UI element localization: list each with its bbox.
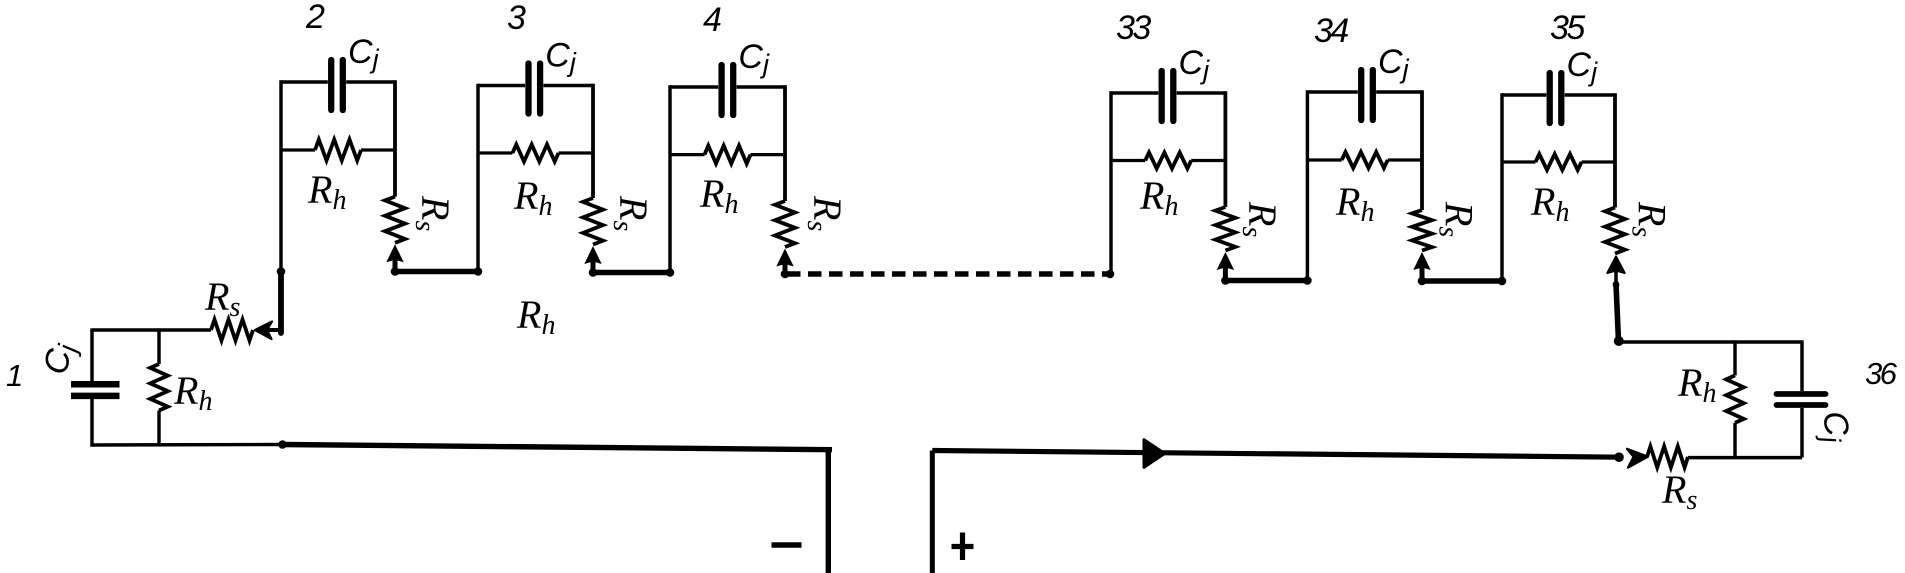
resistor Rs (cell 33, series)	[1215, 207, 1235, 251]
capacitor Cj (cell 4) plates	[718, 65, 724, 115]
resistor Rs (cell 34, series)	[1412, 210, 1432, 251]
wire thick vertical from cell 35 Rs down to cell 36	[1616, 284, 1619, 341]
junction dot at Rs bottom (cell 33)	[1221, 276, 1230, 285]
wire right vertical of cell 36	[1800, 340, 1803, 391]
capacitor Cj (cell 36) plates	[1777, 391, 1826, 397]
junction dot start of negative rail	[278, 440, 287, 449]
wire thick vertical from Rs up to node between cell1 and cell2	[278, 272, 284, 334]
junction dot at cell 36 top-left corner	[1614, 336, 1624, 346]
junction dot at Rs bottom (cell 4)	[781, 270, 790, 279]
svg-text:4: 4	[703, 1, 722, 39]
resistor Rh (cell 34, shunt)	[1307, 158, 1341, 161]
resistor Rs (cell 2, series)	[385, 197, 405, 243]
resistor Rh (cell 3, shunt)	[478, 151, 513, 154]
svg-text:36: 36	[1865, 356, 1898, 391]
arrowhead pointing up at bottom of Rs (cell 33)	[1217, 252, 1234, 270]
wire top of cell 1	[92, 328, 211, 331]
arrowhead pointing up at bottom of Rs (cell 34)	[1413, 252, 1430, 270]
battery negative terminal label -	[772, 542, 802, 548]
resistor Rs (cell 35, series)	[1605, 208, 1625, 254]
capacitor Cj (cell 1) plates	[71, 381, 120, 388]
junction dot at next cell input	[1303, 276, 1312, 285]
arrowhead pointing right into Rs (cell 36)	[1627, 449, 1648, 468]
wire left vertical of cell 35	[1500, 93, 1503, 281]
capacitor Cj (cell 3) plates	[525, 64, 531, 114]
wire negative terminal vertical	[826, 449, 831, 573]
arrowhead pointing up at bottom of Rs (cell 35)	[1607, 257, 1624, 274]
resistor Rh (cell 4, shunt)	[670, 153, 705, 156]
svg-text:3: 3	[507, 0, 526, 37]
wire stub below arrow (cell 34)	[1420, 267, 1425, 282]
wire top rail of cell 4	[670, 85, 718, 88]
svg-text:35: 35	[1550, 9, 1585, 47]
wire right vertical of cell 34	[1420, 90, 1424, 210]
resistor Rh (cell 1, shunt)	[157, 328, 160, 364]
wire right vertical of cell 35	[1613, 93, 1617, 207]
resistor Rs (cell 3, series)	[583, 198, 603, 245]
junction dot at Rs bottom (cell 3)	[589, 268, 598, 277]
wire from capacitor to bottom (cell 36)	[1800, 408, 1803, 458]
wire positive terminal vertical	[930, 451, 935, 573]
resistor Rh (cell 35, shunt)	[1502, 160, 1536, 163]
wire left vertical of cell 1	[90, 328, 93, 381]
resistor Rh (cell 2, shunt)	[281, 148, 315, 151]
svg-text:33: 33	[1116, 9, 1151, 47]
junction dot on connector below arrow (cell 35)	[1613, 281, 1620, 288]
resistor Rh (cell 33, shunt)	[1111, 159, 1145, 162]
capacitor Cj (cell 2) plates	[328, 60, 334, 110]
wire top rail of cell 33	[1111, 91, 1158, 94]
current direction arrowhead on positive rail	[1144, 440, 1165, 468]
wire left vertical of cell 2	[279, 80, 282, 271]
svg-text:34: 34	[1314, 12, 1348, 50]
junction dot before Rs (cell 36)	[1614, 452, 1624, 462]
junction dot at dashed wire end (cell 33 input)	[1106, 270, 1115, 279]
capacitor Cj (cell 34) plates	[1358, 70, 1364, 120]
wire thick from cell 3 to next cell	[593, 270, 670, 276]
capacitor Cj (cell 33) plates	[1159, 71, 1165, 121]
wire thick positive rail	[932, 451, 1622, 458]
junction dot at next cell input	[474, 267, 483, 276]
junction dot at next cell input	[1498, 277, 1507, 286]
resistor Rs (cell 36, series)	[1647, 446, 1688, 467]
wire left vertical of cell 33	[1109, 91, 1112, 274]
wire top of cell 36	[1619, 340, 1803, 343]
arrowhead pointing up at bottom of Rs (cell 4)	[776, 249, 793, 267]
wire bottom of cell 1	[90, 443, 282, 447]
arrowhead pointing left into Rs (cell 1)	[255, 322, 272, 340]
resistor Rs (cell 1, series)	[211, 320, 253, 341]
svg-text:2: 2	[305, 0, 325, 36]
wire right vertical of cell 33	[1224, 91, 1228, 207]
wire right vertical of cell 2	[393, 80, 397, 196]
wire left vertical of cell 3	[476, 84, 479, 272]
wire stub below arrow (cell 3)	[591, 261, 596, 273]
wire top rail of cell 34	[1307, 90, 1357, 93]
wire left vertical of cell 34	[1306, 90, 1309, 280]
wire bottom of cell 36	[1688, 456, 1802, 459]
wire stub below arrow (cell 4)	[783, 263, 788, 274]
wire thick from cell 33 to next cell	[1225, 278, 1307, 284]
resistor Rh (cell 36, shunt)	[1733, 340, 1736, 375]
resistor Rs (cell 4, series)	[775, 201, 795, 247]
battery positive terminal label +	[952, 544, 974, 549]
junction dot at Rs bottom (cell 2)	[391, 267, 400, 276]
wire from capacitor to bottom (cell 1)	[90, 398, 93, 447]
junction dot node between cell 1 and cell 2	[277, 267, 286, 276]
arrowhead pointing up at bottom of Rs (cell 2)	[386, 244, 403, 262]
wire thick negative rail	[283, 445, 833, 450]
capacitor Cj (cell 35) plates	[1547, 73, 1553, 123]
wire thick from cell 2 to next cell	[395, 269, 478, 275]
arrowhead pointing up at bottom of Rs (cell 3)	[584, 246, 601, 264]
junction dot at next cell input	[666, 268, 675, 277]
wire stub below arrow (cell 33)	[1223, 267, 1228, 281]
dashed wire from cell 4 to cell 33	[787, 271, 1110, 277]
junction dot at Rs bottom (cell 34)	[1418, 277, 1427, 286]
wire top rail of cell 35	[1502, 93, 1546, 96]
wire right vertical of cell 4	[783, 85, 787, 201]
wire stub below arrow (cell 2)	[393, 259, 398, 272]
svg-text:1: 1	[6, 358, 23, 393]
wire top rail of cell 3	[478, 84, 525, 87]
wire top rail of cell 2	[281, 80, 328, 83]
wire thick from cell 34 to next cell	[1422, 278, 1502, 284]
wire right vertical of cell 3	[591, 84, 595, 198]
wire left vertical of cell 4	[668, 85, 671, 272]
